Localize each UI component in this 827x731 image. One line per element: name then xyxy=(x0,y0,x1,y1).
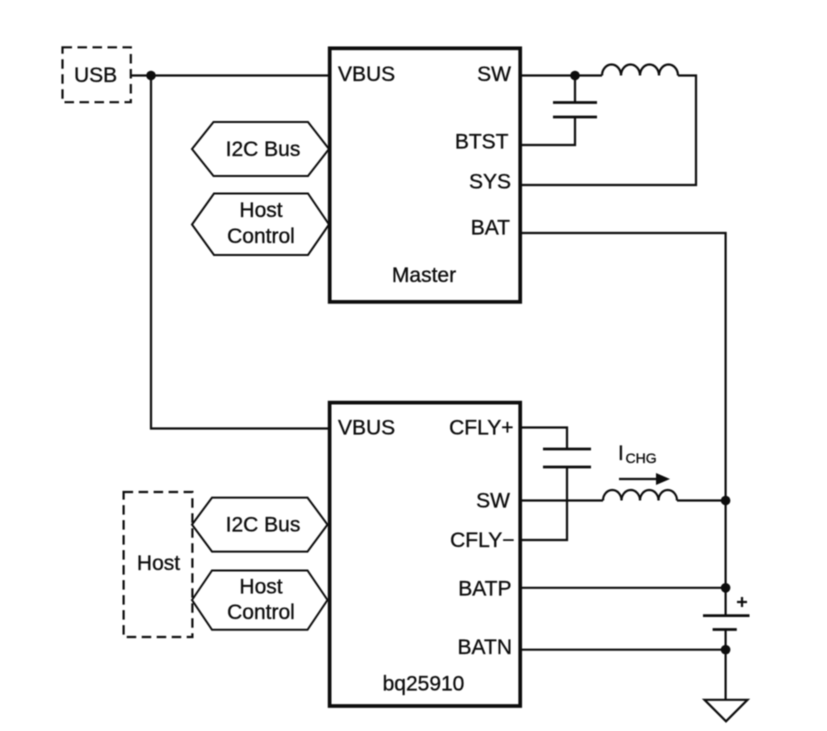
wire BATP to battery rail xyxy=(520,587,726,589)
svg-text:USB: USB xyxy=(74,64,117,87)
USB port (dashed box) xyxy=(63,47,131,102)
wire U2 SW to L2 xyxy=(520,499,603,501)
svg-text:Host: Host xyxy=(137,552,180,575)
wire C1 to BTST xyxy=(520,117,575,145)
inductor L1 xyxy=(602,65,678,76)
Host Control tag to Master xyxy=(192,194,329,256)
capacitor C1 bootstrap xyxy=(553,76,597,118)
I2C Bus tag to U2 xyxy=(192,498,328,552)
wire U1 BAT to battery rail xyxy=(520,233,726,616)
svg-text:SW: SW xyxy=(476,490,510,513)
svg-text:Control: Control xyxy=(227,601,295,624)
svg-text:I: I xyxy=(618,442,624,465)
svg-text:BATP: BATP xyxy=(458,578,511,601)
current arrow ICHG xyxy=(619,473,670,485)
svg-text:BTST: BTST xyxy=(455,131,509,154)
wire BATN to battery rail xyxy=(520,649,726,651)
svg-text:I2C Bus: I2C Bus xyxy=(226,138,301,161)
svg-text:VBUS: VBUS xyxy=(338,417,395,440)
svg-text:BATN: BATN xyxy=(458,636,512,659)
IC U1 Master charger xyxy=(330,48,521,302)
Host block (dashed box) xyxy=(124,492,193,637)
svg-text:SYS: SYS xyxy=(469,171,511,194)
svg-text:Master: Master xyxy=(392,264,456,287)
wire USB output to VBUS node xyxy=(131,74,330,76)
wire L2 to battery rail xyxy=(677,499,726,501)
capacitor C2 flying cap xyxy=(543,449,591,467)
svg-text:I2C Bus: I2C Bus xyxy=(226,514,301,537)
wire BATN node to ground xyxy=(724,650,726,700)
svg-text:CFLY−: CFLY− xyxy=(450,529,514,552)
junction dot L2 output on battery rail xyxy=(721,496,731,506)
svg-text:BAT: BAT xyxy=(471,217,510,240)
svg-text:Host: Host xyxy=(239,576,282,599)
label ICHG xyxy=(618,442,657,466)
junction dot SW node xyxy=(570,71,580,81)
svg-text:SW: SW xyxy=(477,63,511,86)
svg-text:VBUS: VBUS xyxy=(338,63,395,86)
ground xyxy=(705,700,748,722)
svg-text:Host: Host xyxy=(239,199,282,222)
wire CFLY+ to C2 xyxy=(520,428,567,450)
battery BT1 xyxy=(703,597,750,630)
wire C2 to CFLY- xyxy=(520,467,567,540)
wire U1 SW to L1 xyxy=(520,74,602,76)
svg-text:CHG: CHG xyxy=(626,450,657,466)
inductor L2 xyxy=(603,490,677,501)
junction dot VBUS node xyxy=(146,71,156,81)
Host Control tag to U2 xyxy=(192,571,328,630)
svg-text:bq25910: bq25910 xyxy=(383,673,465,696)
svg-text:CFLY+: CFLY+ xyxy=(449,417,513,440)
svg-text:Control: Control xyxy=(227,225,295,248)
wire battery negative to BATN node xyxy=(724,630,726,651)
junction dot BATP node xyxy=(721,583,731,593)
junction dot BATN node xyxy=(721,645,731,655)
IC U2 bq25910 xyxy=(330,403,521,706)
wire VBUS node down to bq25910 VBUS xyxy=(151,76,330,429)
wire L1 to SYS xyxy=(520,76,696,186)
I2C Bus tag to Master xyxy=(192,122,329,176)
